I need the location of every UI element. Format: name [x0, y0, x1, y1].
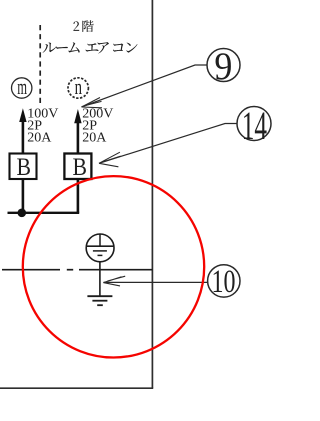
label ルームエアコン (room air conditioner) [43, 43, 57, 53]
svg-text:m: m [17, 74, 27, 99]
grounding conductor wire [99, 261, 101, 296]
wire below breaker B1 [22, 179, 25, 213]
leader line 14 [99, 124, 237, 164]
callout circle 10 [208, 265, 240, 297]
wire below breaker B2 [77, 179, 80, 213]
outlet symbol m (circle) [12, 78, 32, 98]
leader arrowhead 14 [99, 152, 121, 167]
svg-text:14: 14 [242, 103, 267, 148]
earth terminal inner stem [99, 234, 101, 246]
red highlight circle [23, 176, 204, 357]
earth terminal small bar [98, 254, 103, 256]
leader arrowhead 10 [103, 276, 125, 286]
property dash-dot line dot [67, 269, 73, 271]
callout circle 14 [237, 107, 271, 141]
svg-text:B: B [17, 152, 32, 181]
callout circle 9 [207, 49, 240, 82]
dashed circuit divider line [39, 25, 41, 105]
label 2階 (2nd floor) [73, 21, 79, 30]
leader line 10 [104, 281, 208, 283]
breaker B1 box [10, 154, 37, 180]
property dash-dot line segment 2 [79, 269, 152, 271]
feeder arrow 100V (head) [19, 108, 26, 122]
earth electrode bar 1 [87, 295, 112, 297]
wall border vertical line [151, 0, 153, 388]
feeder arrow 200V (head) [74, 109, 81, 123]
earth electrode bar 3 [97, 304, 103, 306]
svg-text:9: 9 [214, 44, 232, 88]
property dash-dot line segment 1 [2, 269, 60, 271]
feeder arrow 200V (shaft) [77, 122, 80, 154]
svg-text:20A: 20A [82, 130, 107, 145]
wall border bottom horizontal line [0, 387, 153, 389]
breaker B2 box [64, 154, 91, 180]
earth terminal circle [86, 234, 114, 262]
svg-text:n: n [75, 74, 82, 99]
leader line 9 [82, 65, 208, 107]
svg-text:B: B [73, 152, 88, 181]
earth electrode bar 2 [92, 300, 107, 302]
leader arrowhead 9 [82, 98, 103, 108]
bus wire horizontal [8, 212, 80, 214]
junction dot [18, 209, 27, 218]
svg-text:10: 10 [212, 264, 236, 300]
earth terminal chord bar [86, 245, 114, 247]
svg-text:20A: 20A [27, 130, 52, 145]
feeder arrow 100V (shaft) [22, 121, 25, 154]
earth terminal middle bar [93, 250, 107, 252]
outlet symbol n (dashed circle) [68, 78, 88, 98]
